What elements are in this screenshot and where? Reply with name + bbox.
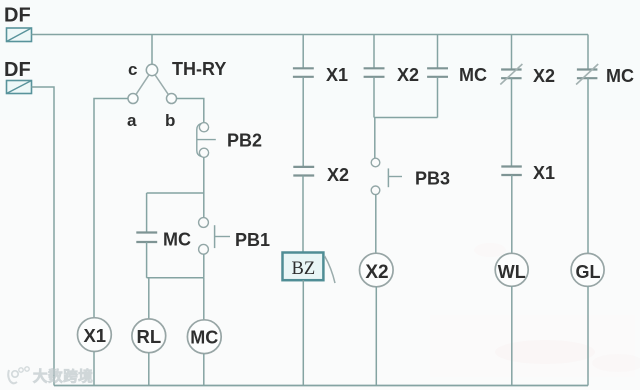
svg-text:MC: MC xyxy=(459,65,487,85)
wire merge junction horizontal xyxy=(374,117,438,119)
svg-text:X1: X1 xyxy=(83,325,106,346)
wire PB2 to parallel junction xyxy=(203,157,205,193)
svg-text:b: b xyxy=(165,111,175,130)
wire X1 coil to bus xyxy=(93,352,95,386)
fuse DF2 xyxy=(7,81,32,94)
wire from a to X1 coil branch xyxy=(94,99,128,318)
wire top bus xyxy=(32,34,589,36)
label PB3 xyxy=(415,169,450,189)
svg-text:MC: MC xyxy=(606,66,634,86)
wire MC coil to bus xyxy=(203,354,205,386)
wire MC-NC to GL coil xyxy=(587,78,589,253)
svg-text:X2: X2 xyxy=(533,66,555,86)
wire PB1 branch lower xyxy=(203,254,205,278)
contact MC (NC) xyxy=(576,64,598,85)
svg-text:X2: X2 xyxy=(327,165,349,185)
wire drop X1 contact branch xyxy=(302,35,304,69)
wire left rail from DF2 xyxy=(32,87,55,386)
coil X2 xyxy=(360,253,394,287)
wire X1 contact to X2 contact xyxy=(302,77,304,167)
relay TH-RY selector contact xyxy=(128,64,177,103)
svg-text:a: a xyxy=(127,111,137,130)
contact X1 (NO) xyxy=(293,68,314,77)
wire drop to TH-RY c xyxy=(151,35,153,65)
wire X2-NC to X1 contact xyxy=(511,78,513,166)
svg-text:c: c xyxy=(128,60,137,79)
wire X2 contact to BZ xyxy=(302,176,304,253)
label a xyxy=(127,111,137,130)
wire RL coil to bus xyxy=(148,353,150,386)
coil GL xyxy=(571,253,604,286)
wire X2 contact down xyxy=(373,77,375,118)
wire drop MC contact branch xyxy=(437,35,439,69)
svg-text:GL: GL xyxy=(576,262,601,282)
label b xyxy=(165,111,175,130)
wire junction to PB3 xyxy=(374,118,376,159)
label MC contact xyxy=(163,230,191,250)
wire drop X2 contact branch xyxy=(373,35,375,69)
svg-text:BZ: BZ xyxy=(292,259,316,279)
coil X1 xyxy=(78,318,112,352)
wire GL coil to bus xyxy=(587,286,589,385)
coil RL xyxy=(132,319,166,353)
wire from b to PB2 xyxy=(177,99,204,123)
label PB1 xyxy=(235,230,270,250)
label DF2 xyxy=(4,59,31,81)
svg-text:X1: X1 xyxy=(326,65,348,85)
svg-text:PB2: PB2 xyxy=(227,131,262,151)
label DF1 xyxy=(4,5,31,27)
svg-text:DF: DF xyxy=(4,5,31,27)
wire bottom bus xyxy=(54,385,588,387)
svg-text:DF: DF xyxy=(4,59,31,81)
contact MC (NO, top) xyxy=(427,68,448,77)
wire junction bottom horizontal xyxy=(147,277,204,279)
label X2 contact xyxy=(397,65,419,85)
pushbutton PB3 (NO) xyxy=(371,158,402,194)
svg-text:X2: X2 xyxy=(365,262,388,283)
label PB2 xyxy=(227,131,262,151)
label X1 contact (WL branch) xyxy=(533,163,555,183)
contact X2 (NC) xyxy=(500,64,522,85)
svg-text:大数跨境: 大数跨境 xyxy=(33,368,93,386)
wire junction top horizontal xyxy=(147,192,204,194)
contact MC (NO, self-hold) xyxy=(136,233,157,243)
wire drop X2-NC branch xyxy=(511,35,513,70)
wire MC contact branch upper xyxy=(146,193,148,233)
coil MC xyxy=(187,320,221,354)
svg-text:PB1: PB1 xyxy=(235,230,270,250)
label X2 NC contact xyxy=(533,66,555,86)
coil WL xyxy=(495,253,528,286)
wire to MC coil xyxy=(203,278,205,320)
wire MC contact down xyxy=(437,77,439,118)
label TH-RY xyxy=(172,59,226,79)
wire X2 coil to bus xyxy=(375,287,377,386)
fuse DF1 xyxy=(7,28,32,42)
wire X1 contact to WL coil xyxy=(511,175,513,253)
wire to RL coil xyxy=(148,278,150,319)
svg-text:TH-RY: TH-RY xyxy=(172,59,226,79)
svg-text:X1: X1 xyxy=(533,163,555,183)
svg-text:MC: MC xyxy=(163,230,191,250)
contact X2 (NO, BZ branch) xyxy=(293,167,314,176)
label c xyxy=(128,60,137,79)
label X2 contact (BZ branch) xyxy=(327,165,349,185)
watermark bottom-left xyxy=(8,367,93,386)
wire PB1 branch upper xyxy=(203,193,205,218)
wire drop MC-NC branch (right rail) xyxy=(587,35,589,70)
wire MC contact branch lower xyxy=(146,242,148,278)
svg-text:RL: RL xyxy=(136,326,161,347)
label X1 contact xyxy=(326,65,348,85)
label MC contact (top) xyxy=(459,65,487,85)
svg-text:WL: WL xyxy=(498,262,526,282)
wire PB3 to X2 coil xyxy=(375,195,377,254)
label MC NC contact xyxy=(606,66,634,86)
contact X2 (NO) xyxy=(364,68,385,77)
wire BZ to bus xyxy=(302,280,304,385)
pushbutton PB2 (NC) xyxy=(197,123,216,158)
buzzer BZ xyxy=(283,253,336,284)
wire WL coil to bus xyxy=(511,286,513,385)
svg-text:X2: X2 xyxy=(397,65,419,85)
svg-text:PB3: PB3 xyxy=(415,169,450,189)
svg-text:MC: MC xyxy=(190,328,218,348)
pushbutton PB1 (NO) xyxy=(199,218,230,255)
contact X1 (NO, WL branch) xyxy=(501,167,522,176)
